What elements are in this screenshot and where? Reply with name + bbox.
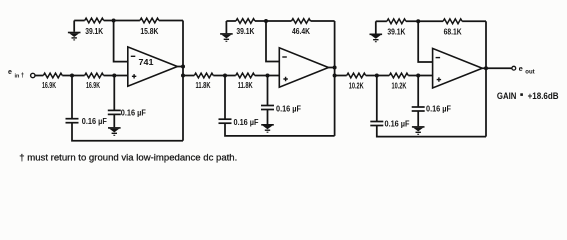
svg-text:16.9K: 16.9K	[42, 81, 56, 90]
svg-text:0.16 µF: 0.16 µF	[385, 119, 410, 128]
svg-text:68.1K: 68.1K	[444, 28, 462, 37]
svg-text:0.16 µF: 0.16 µF	[426, 105, 451, 114]
svg-text:0.16 µF: 0.16 µF	[234, 118, 259, 127]
svg-text:+18.6dB: +18.6dB	[528, 91, 559, 101]
svg-text:† must return to ground via lo: † must return to ground via low-impedanc…	[19, 153, 237, 163]
svg-text:39.1K: 39.1K	[85, 27, 103, 36]
svg-text:0.16 µF: 0.16 µF	[276, 104, 301, 113]
svg-text:e: e	[519, 64, 523, 73]
svg-text:15.8K: 15.8K	[140, 27, 158, 36]
svg-text:46.4K: 46.4K	[292, 27, 310, 36]
svg-text:39.1K: 39.1K	[387, 28, 405, 37]
svg-text:GAIN: GAIN	[497, 91, 517, 101]
svg-text:0.16 µF: 0.16 µF	[121, 108, 146, 117]
svg-text:out: out	[525, 70, 534, 76]
svg-text:11.8K: 11.8K	[238, 81, 253, 90]
svg-text:in: in	[15, 74, 21, 80]
svg-text:39.1K: 39.1K	[236, 27, 254, 36]
svg-text:741: 741	[139, 58, 155, 67]
svg-text:e: e	[8, 69, 12, 76]
svg-text:10.2K: 10.2K	[392, 81, 407, 90]
svg-text:10.2K: 10.2K	[349, 81, 364, 90]
svg-text:11.8K: 11.8K	[196, 81, 211, 90]
svg-text:16.9K: 16.9K	[86, 81, 100, 90]
svg-text:0.16 µF: 0.16 µF	[82, 117, 107, 126]
svg-text:†: †	[21, 72, 25, 79]
